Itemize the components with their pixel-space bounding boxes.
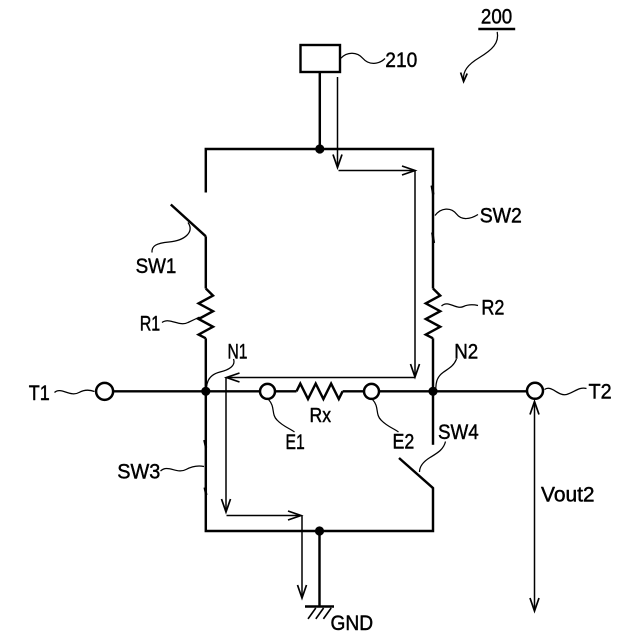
- svg-text:SW3: SW3: [117, 461, 160, 484]
- wire N1 to bottom rail, bottom rail, up to SW4: [206, 391, 433, 531]
- resistor R1: [199, 289, 213, 339]
- svg-text:SW2: SW2: [480, 205, 522, 228]
- terminal T1 circle: [96, 383, 113, 400]
- svg-text:N1: N1: [228, 340, 248, 363]
- svg-text:210: 210: [385, 49, 417, 72]
- switch SW2 (closed) blade marks: [432, 186, 434, 244]
- current arrow down into ground: [298, 516, 307, 599]
- wire to ground: [318, 531, 320, 606]
- switch SW1 (open) blade: [171, 205, 206, 237]
- svg-text:200: 200: [481, 5, 512, 28]
- svg-text:E2: E2: [393, 430, 415, 453]
- Vout2 measurement arrow (double headed): [530, 402, 539, 612]
- svg-text:T2: T2: [589, 381, 612, 404]
- wire R2 to N2: [432, 338, 434, 391]
- power source box 210: [301, 45, 341, 72]
- main rail: Rx to T2: [343, 390, 527, 392]
- svg-text:GND: GND: [331, 612, 374, 635]
- leader line E1: [269, 400, 295, 433]
- current arrow down inside right branch: [411, 171, 420, 378]
- leader line SW1: [152, 223, 190, 253]
- svg-text:E1: E1: [286, 431, 305, 454]
- arrow leader from 200 to circuit: [461, 32, 498, 82]
- wire SW1 to R1: [205, 236, 207, 288]
- leader line SW2: [435, 209, 478, 218]
- electrode E1 circle: [260, 384, 275, 399]
- main rail: T1 to Rx: [113, 390, 297, 392]
- leader line R2: [442, 304, 479, 307]
- top rail wire with corners (left to SW1, right to R2 top): [206, 149, 433, 289]
- node N1 junction dot: [201, 387, 210, 396]
- leader line T1: [55, 390, 95, 394]
- switch SW3 (closed) blade marks: [204, 440, 206, 495]
- svg-text:R1: R1: [140, 313, 161, 336]
- current arrow top segment to right: [339, 166, 416, 175]
- reference numeral 200 (underlined): [478, 5, 515, 29]
- svg-text:Rx: Rx: [310, 405, 332, 427]
- current arrow leftwards toward N1: [227, 373, 416, 382]
- leader line 210: [341, 53, 386, 63]
- svg-text:SW4: SW4: [438, 421, 479, 444]
- current arrow from 210 down: [333, 77, 342, 168]
- leader line E2: [373, 400, 399, 433]
- svg-text:T1: T1: [29, 382, 50, 405]
- junction dot at top rail: [315, 144, 324, 153]
- resistor R2: [426, 289, 440, 339]
- switch SW4 (open) blade: [399, 458, 433, 488]
- leader line N1: [207, 359, 234, 388]
- wire R1 to N1: [205, 338, 207, 391]
- leader line R1: [162, 317, 200, 324]
- current arrow down inside left branch: [222, 378, 231, 513]
- wire 210 to top rail: [319, 72, 321, 149]
- current arrow rightwards toward ground stub: [227, 511, 302, 520]
- leader line N2: [436, 359, 457, 388]
- ground symbol: [305, 607, 334, 619]
- resistor Rx: [297, 384, 343, 399]
- svg-text:N2: N2: [454, 340, 478, 363]
- terminal T2 circle: [527, 383, 543, 399]
- leader line T2: [545, 388, 587, 395]
- svg-text:R2: R2: [481, 297, 504, 320]
- junction dot at ground stub: [315, 526, 324, 535]
- electrode E2 circle: [364, 384, 379, 399]
- wire N2 to SW4 upper contact: [432, 391, 434, 445]
- leader line SW3: [161, 466, 205, 471]
- node N2 junction dot: [428, 387, 437, 396]
- leader line SW4: [420, 442, 446, 473]
- svg-text:Vout2: Vout2: [541, 483, 595, 506]
- svg-text:SW1: SW1: [136, 255, 177, 278]
